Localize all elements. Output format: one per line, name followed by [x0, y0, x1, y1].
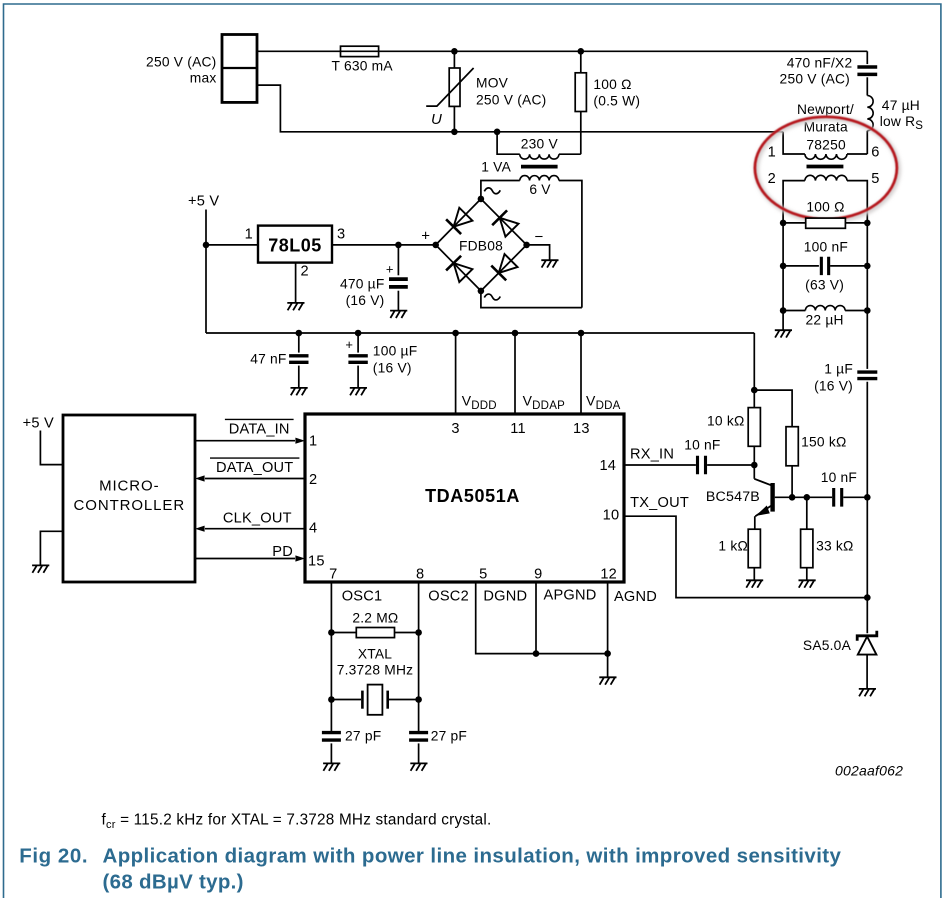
svg-text:AGND: AGND	[614, 589, 657, 605]
svg-text:1 kΩ: 1 kΩ	[718, 539, 748, 554]
svg-text:+: +	[421, 228, 430, 245]
svg-text:002aaf062: 002aaf062	[835, 763, 903, 779]
junction rail / 100uF	[355, 330, 362, 337]
wire mains line (top)	[257, 50, 867, 52]
svg-text:2: 2	[301, 264, 309, 280]
svg-text:7.3728 MHz: 7.3728 MHz	[337, 663, 414, 678]
resistor 33 kOhm	[806, 497, 808, 529]
svg-text:PD: PD	[272, 544, 293, 560]
svg-text:+: +	[386, 262, 394, 277]
wire TVS to ground	[866, 655, 868, 689]
svg-text:4: 4	[309, 521, 317, 537]
ground (100 uF)	[350, 388, 367, 395]
resistor 2.2 MOhm	[356, 628, 394, 638]
svg-text:22 µH: 22 µH	[805, 313, 843, 328]
svg-text:100 nF: 100 nF	[804, 240, 848, 255]
resistor 100 Ohm 0.5 W	[580, 51, 582, 73]
diode D3 (AC bottom to +)	[446, 256, 461, 271]
svg-text:CONTROLLER: CONTROLLER	[74, 497, 186, 514]
svg-text:5: 5	[871, 171, 879, 187]
svg-text:5: 5	[479, 567, 487, 583]
svg-text:DATA_IN: DATA_IN	[229, 421, 290, 437]
wire VDDA pin 13 supply	[580, 333, 582, 414]
svg-text:100 µF: 100 µF	[373, 344, 418, 359]
svg-text:15: 15	[308, 554, 325, 570]
capacitor 100 nF (63 V)	[782, 223, 784, 266]
junction OSC2 / crystal	[415, 696, 422, 703]
svg-text:1: 1	[245, 227, 253, 243]
wire +5V to microcontroller	[40, 431, 63, 465]
svg-text:1 VA: 1 VA	[481, 160, 511, 175]
svg-text:14: 14	[599, 458, 616, 474]
svg-text:DGND: DGND	[483, 589, 527, 605]
svg-text:−: −	[535, 229, 544, 246]
svg-text:47 nF: 47 nF	[250, 351, 286, 366]
svg-text:TDA5051A: TDA5051A	[425, 486, 520, 506]
svg-text:230 V: 230 V	[521, 137, 559, 152]
junction 100 nF right	[864, 263, 871, 270]
svg-text:10 nF: 10 nF	[684, 438, 720, 453]
svg-text:7: 7	[329, 567, 337, 583]
svg-text:78250: 78250	[806, 137, 846, 152]
svg-text:10 nF: 10 nF	[821, 470, 857, 485]
svg-text:3: 3	[337, 227, 345, 243]
inductor 22 uH	[782, 266, 784, 311]
capacitor 10 nF (RX)	[698, 456, 706, 475]
ground (78L05 pin 2)	[287, 303, 304, 310]
svg-text:BC547B: BC547B	[706, 489, 760, 505]
ground (1 kOhm)	[746, 580, 763, 587]
junction OSC1 / crystal	[328, 696, 335, 703]
junction mains bottom / MOV	[451, 129, 458, 136]
transformer T1 core	[521, 165, 558, 169]
wire AGND pin 12	[607, 582, 609, 677]
junction rail / TX_OUT	[864, 594, 871, 601]
transformer T1 primary 230 V	[497, 132, 520, 154]
svg-text:(68 dBµV typ.): (68 dBµV typ.)	[103, 871, 244, 894]
svg-text:250 V (AC): 250 V (AC)	[146, 55, 216, 70]
junction bias node	[751, 387, 758, 394]
transformer T2 core	[807, 165, 844, 169]
junction rail / VDDA	[578, 330, 585, 337]
wire +5V vertical	[205, 210, 207, 334]
svg-text:9: 9	[534, 567, 542, 583]
svg-text:10 kΩ: 10 kΩ	[707, 413, 745, 428]
ground (TVS)	[859, 689, 876, 696]
wire +5V rail	[206, 332, 754, 334]
red highlight circle	[756, 118, 898, 220]
capacitor 27 pF (left)	[322, 733, 341, 741]
capacitor 47 nF	[298, 333, 300, 353]
regulator U2 78L05	[258, 226, 332, 263]
transistor Q1 BC547B	[753, 465, 755, 479]
wire base node	[775, 496, 832, 498]
junction rail / 10nF	[864, 494, 871, 501]
junction 100 nF left	[780, 263, 787, 270]
svg-text:470 µF: 470 µF	[340, 277, 385, 292]
svg-text:MOV: MOV	[476, 76, 509, 91]
fuse F1	[341, 46, 379, 56]
wire line rail (RX/TX section)	[866, 497, 868, 633]
capacitor 100 uF (16 V)	[357, 333, 359, 353]
ground (33 kOhm)	[799, 580, 816, 587]
wire TX_OUT	[624, 516, 867, 597]
wire mains neutral (bottom)	[257, 85, 783, 132]
wire microcontroller ground	[40, 531, 63, 565]
svg-text:CLK_OUT: CLK_OUT	[223, 510, 292, 526]
junction base / 150k	[789, 494, 796, 501]
svg-text:11: 11	[510, 421, 526, 437]
wire OSC1 pin 7	[330, 582, 332, 731]
svg-text:100 Ω: 100 Ω	[806, 200, 844, 215]
capacitor 1 uF (16 V)	[866, 311, 868, 369]
mains plug 250 V (AC)	[222, 35, 257, 103]
svg-text:250 V (AC): 250 V (AC)	[476, 93, 546, 108]
wire 2.2M right	[395, 632, 419, 634]
capacitor 10 nF (TX)	[834, 488, 842, 507]
svg-text:(16 V): (16 V)	[814, 379, 853, 394]
crystal X1 XTAL 7.3728 MHz	[331, 699, 361, 701]
wire 10nF to RX node	[707, 464, 754, 466]
diode D1 (AC top to +)	[446, 219, 461, 234]
wire VDDD pin 3 supply	[455, 333, 457, 414]
junction OSC1 / 2.2M	[328, 629, 335, 636]
svg-text:APGND: APGND	[544, 588, 597, 604]
junction AGND	[604, 650, 611, 657]
svg-text:+5 V: +5 V	[23, 416, 54, 432]
svg-text:27 pF: 27 pF	[431, 728, 467, 743]
transformer T2 secondary	[805, 175, 847, 180]
junction bridge -	[523, 242, 530, 249]
svg-text:150 kΩ: 150 kΩ	[801, 435, 846, 450]
svg-text:1: 1	[768, 145, 776, 161]
svg-text:OSC1: OSC1	[342, 589, 383, 605]
signal DATA_IN	[195, 440, 295, 442]
svg-text:27 pF: 27 pF	[345, 728, 381, 743]
svg-text:6: 6	[871, 145, 879, 161]
svg-text:DATA_OUT: DATA_OUT	[216, 460, 293, 476]
svg-text:6 V: 6 V	[529, 182, 551, 197]
junction OSC2 / 2.2M	[415, 629, 422, 636]
svg-text:+5 V: +5 V	[188, 194, 219, 210]
svg-text:100 Ω: 100 Ω	[593, 77, 631, 92]
svg-text:3: 3	[451, 421, 459, 437]
bridge rectifier FDB08	[436, 199, 481, 245]
junction rail / 47nF	[296, 330, 303, 337]
IC U1 TDA5051A	[305, 414, 624, 582]
svg-text:Fig 20.: Fig 20.	[19, 845, 88, 868]
wire bridge bottom to secondary return	[481, 291, 582, 308]
svg-text:47 µH: 47 µH	[882, 98, 920, 113]
svg-text:(16 V): (16 V)	[373, 361, 412, 376]
microcontroller U3	[63, 415, 195, 582]
junction bridge AC bottom	[478, 288, 485, 295]
svg-text:U: U	[431, 111, 442, 128]
ground (bridge -)	[541, 260, 558, 267]
junction bridge +	[432, 242, 439, 249]
ground (470 uF)	[390, 311, 407, 318]
wire 78L05 pin 1	[206, 244, 258, 246]
wire bridge - to ground	[527, 245, 550, 260]
svg-text:(63 V): (63 V)	[805, 278, 844, 293]
wire bias node to 150k	[754, 390, 792, 427]
svg-text:MICRO-: MICRO-	[99, 477, 159, 494]
wire 2.2M left	[331, 632, 356, 634]
capacitor 27 pF (right)	[409, 733, 428, 741]
ground (27 pF left)	[323, 763, 340, 770]
capacitor 470 uF (16 V)	[397, 245, 399, 275]
junction 22 uH right	[864, 307, 871, 314]
svg-text:fcr = 115.2 kHz for XTAL = 7.3: fcr = 115.2 kHz for XTAL = 7.3728 MHz st…	[102, 811, 492, 831]
junction bridge+ / 470uF	[395, 242, 402, 249]
svg-text:max: max	[190, 71, 217, 86]
svg-text:1: 1	[309, 433, 317, 449]
capacitor 470 nF/X2 250 V (AC)	[866, 51, 868, 64]
signal DATA_OUT	[205, 478, 305, 480]
wire APGND pin 9	[535, 582, 537, 654]
svg-text:FDB08: FDB08	[459, 238, 503, 253]
svg-text:RX_IN: RX_IN	[630, 447, 674, 463]
junction APGND	[533, 650, 540, 657]
svg-text:33 kΩ: 33 kΩ	[816, 539, 854, 554]
wire RX_IN from pin 14	[624, 464, 696, 466]
svg-text:Newport/: Newport/	[797, 102, 854, 117]
wire rail to bias node	[753, 333, 755, 390]
signal PD	[195, 558, 295, 560]
svg-text:2: 2	[309, 472, 317, 488]
svg-text:2: 2	[768, 171, 776, 187]
svg-text:TX_OUT: TX_OUT	[630, 495, 689, 511]
svg-text:(0.5 W): (0.5 W)	[593, 94, 640, 109]
svg-text:SA5.0A: SA5.0A	[803, 638, 852, 653]
junction +5V / 78L05 pin1	[203, 242, 210, 249]
resistor 10 kOhm	[753, 390, 755, 408]
transformer T2 primary	[783, 132, 805, 154]
inductor 47 uH low Rs	[866, 77, 868, 95]
ground (microcontroller)	[32, 565, 49, 572]
wire DGND pin 5	[476, 582, 608, 654]
diode D4 (- to AC bottom)	[491, 266, 506, 281]
svg-text:XTAL: XTAL	[358, 646, 392, 661]
svg-text:78L05: 78L05	[268, 236, 322, 256]
transformer T1 secondary 6 V	[520, 176, 559, 181]
wire 78L05 pin 2 to ground	[295, 263, 297, 303]
ground (27 pF right)	[410, 763, 427, 770]
junction mains top / 100 Ohm	[578, 48, 585, 55]
junction 22 uH left	[780, 307, 787, 314]
junction mains top / MOV	[451, 48, 458, 55]
wire to local ground	[782, 311, 784, 331]
wire 10nF to line rail	[843, 496, 867, 498]
TVS diode SA5.0A	[857, 631, 877, 641]
junction rail / VDDAP	[512, 330, 519, 337]
junction 100 Ohm right	[864, 220, 871, 227]
AC mark (bottom)	[484, 294, 500, 300]
svg-text:2.2 MΩ: 2.2 MΩ	[352, 610, 398, 625]
junction bridge AC top	[478, 196, 485, 203]
wire OSC2 pin 8	[418, 582, 420, 731]
resistor 100 Ohm (line)	[783, 222, 806, 224]
ground (DGND/APGND/AGND)	[599, 677, 616, 684]
junction mains bottom / primary	[494, 129, 501, 136]
junction 100 Ohm left	[780, 220, 787, 227]
junction RX node	[751, 462, 758, 469]
svg-text:(16 V): (16 V)	[346, 293, 385, 308]
svg-text:+: +	[345, 337, 353, 352]
wire VDDAP pin 11 supply	[514, 333, 516, 414]
diode D2 (- to AC top)	[492, 210, 507, 225]
wire 78L05 pin 3 to bridge +	[332, 244, 436, 246]
svg-text:10: 10	[603, 508, 620, 524]
svg-text:13: 13	[573, 421, 590, 437]
signal CLK_OUT	[205, 528, 305, 530]
svg-text:8: 8	[416, 567, 424, 583]
svg-text:250 V (AC): 250 V (AC)	[780, 72, 850, 87]
resistor 150 kOhm	[786, 427, 798, 466]
junction rail / VDDD	[452, 330, 459, 337]
svg-text:Application diagram with power: Application diagram with power line insu…	[103, 845, 842, 868]
svg-text:1 µF: 1 µF	[824, 362, 853, 377]
svg-text:T 630 mA: T 630 mA	[332, 59, 394, 74]
ground (47 nF)	[291, 388, 308, 395]
svg-text:12: 12	[600, 567, 617, 583]
svg-text:470 nF/X2: 470 nF/X2	[787, 55, 853, 70]
junction base / 33k	[804, 494, 811, 501]
resistor 1 kOhm	[748, 529, 760, 568]
varistor MOV	[453, 51, 455, 132]
AC mark (top)	[484, 188, 500, 194]
ground (coupling network)	[775, 330, 792, 337]
svg-text:OSC2: OSC2	[428, 589, 469, 605]
